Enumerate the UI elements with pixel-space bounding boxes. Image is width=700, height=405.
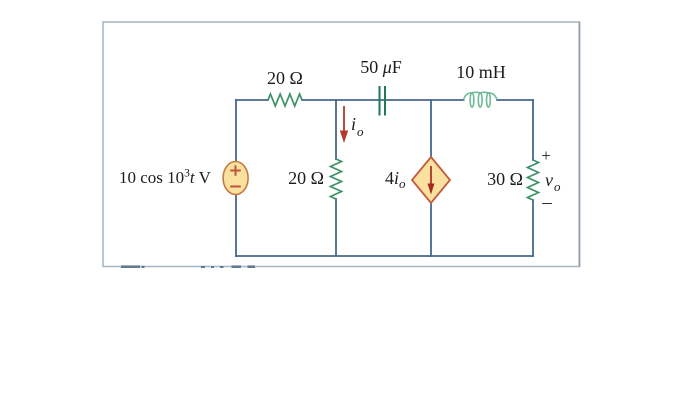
svg-text:10 cos 103t V: 10 cos 103t V: [119, 168, 212, 188]
svg-text:20 Ω: 20 Ω: [288, 168, 324, 188]
svg-text:v: v: [545, 170, 553, 190]
svg-text:+: +: [541, 146, 551, 165]
svg-text:o: o: [554, 179, 561, 194]
svg-text:10 mH: 10 mH: [456, 62, 506, 82]
svg-text:20 Ω: 20 Ω: [267, 68, 303, 88]
svg-text:30 Ω: 30 Ω: [487, 169, 523, 189]
svg-text:i: i: [351, 114, 356, 134]
svg-text:o: o: [357, 124, 364, 139]
svg-text:50 μF: 50 μF: [360, 57, 402, 77]
svg-text:–: –: [541, 192, 552, 213]
